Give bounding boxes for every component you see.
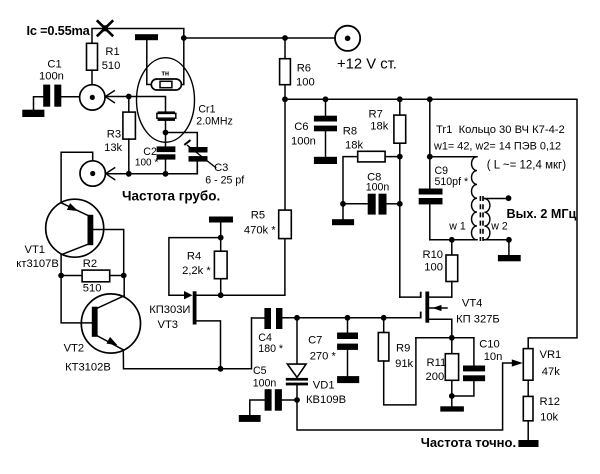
resistor R8 [343,126,400,220]
junction bus R7 [397,96,403,102]
svg-text:C10: C10 [479,339,500,351]
terminal out dot [506,195,512,201]
svg-text:R7: R7 [369,109,383,121]
junction R7 bottom [397,154,403,160]
wire source node [416,337,474,339]
svg-text:2.0MHz: 2.0MHz [196,116,233,128]
svg-text:R3: R3 [107,129,121,141]
svg-text:180 *: 180 * [258,343,283,355]
resistor R4 [182,223,227,296]
svg-text:( L ~= 12,4 мкг): ( L ~= 12,4 мкг) [487,160,567,172]
wire heater left [147,40,152,84]
wire top rail [92,29,336,44]
svg-text:100n: 100n [366,181,390,193]
svg-text:470k *: 470k * [244,225,276,237]
X break symbol [97,20,113,36]
svg-text:C7: C7 [308,335,322,347]
svg-text:КВ109В: КВ109В [306,394,346,406]
svg-text:R6: R6 [297,62,311,74]
ground R12 [518,440,538,447]
svg-text:R4: R4 [187,251,201,263]
wire R4 gate loop [169,238,221,296]
svg-text:18k: 18k [345,140,363,152]
junction VD1 top [294,315,300,321]
svg-text:R8: R8 [343,126,357,138]
thermostat bar [135,34,158,40]
wire coarse node [106,161,198,173]
capacitor C8 [343,172,400,215]
substrate arrow VT4 [429,305,447,311]
wire VT4 drain [429,296,452,298]
arrow VR1 wiper [512,359,523,366]
junction R2 left [58,273,64,279]
junction heater rail [181,35,187,41]
label VT4 [456,298,500,326]
svg-text:Частота грубо.: Частота грубо. [122,189,220,204]
inductor w1 [471,157,477,240]
svg-text:VR1: VR1 [540,349,562,361]
junction bus R6 [282,96,288,102]
svg-text:91k: 91k [395,358,413,370]
junction R9 top [381,315,387,321]
svg-text:VT1: VT1 [25,244,46,256]
svg-text:10k: 10k [540,412,558,424]
ground R8/C8 [332,219,354,225]
svg-text:C3: C3 [214,162,228,174]
junction VT3 source [218,366,224,372]
capacitor C2 [135,133,176,174]
bar above R4 [209,217,233,223]
junction R6 top [282,35,288,41]
svg-text:кт3107В: кт3107В [16,258,59,270]
svg-text:+12 V ст.: +12 V ст. [337,57,397,73]
svg-text:270 *: 270 * [310,351,337,363]
inductor w2 [484,199,490,240]
test point TP2 [80,161,105,186]
svg-text:Частота точно.: Частота точно. [421,435,516,450]
junction R4 bottom [218,292,224,298]
ground R11 [440,406,464,411]
svg-text:C5: C5 [253,365,267,377]
wire w2 top terminal [484,198,507,200]
svg-text:13k: 13k [104,142,122,154]
svg-text:w 1: w 1 [448,221,466,233]
wire node A to crystal [105,97,165,112]
terminal w2 bottom dot [506,237,512,243]
resistor R7 [369,99,406,297]
svg-text:C6: C6 [294,121,308,133]
svg-text:10n: 10n [484,351,503,363]
transistor VT4 channel [425,292,429,323]
svg-text:VT3: VT3 [158,319,179,331]
svg-text:2,2k *: 2,2k * [182,265,211,277]
arrow VT3 gate [184,291,193,299]
resistor R12 [523,396,560,440]
svg-text:КТ3102В: КТ3102В [65,362,111,374]
svg-text:R1: R1 [105,46,119,58]
svg-text:Tr1 Кольцо 30 ВЧ К7-4-2: Tr1 Кольцо 30 ВЧ К7-4-2 [436,124,565,136]
junction R2 right [121,273,127,279]
wire VT3 source [197,321,221,369]
svg-text:R9: R9 [396,343,410,355]
junction R11 bottom [449,393,455,399]
svg-text:510: 510 [102,60,121,72]
svg-text:R11: R11 [427,357,447,369]
ground C6 [314,157,337,164]
junction C8 right [397,201,403,207]
svg-text:510pf *: 510pf * [435,176,469,188]
svg-text:VT4: VT4 [462,298,483,310]
svg-text:510: 510 [83,283,102,295]
capacitor C5 [250,365,297,415]
svg-text:47k: 47k [542,366,560,378]
svg-text:6 - 25 pf: 6 - 25 pf [205,174,244,186]
wire VT2 collector [123,276,125,296]
ground C7 [337,376,359,383]
svg-text:200: 200 [426,371,445,383]
junction R10 top [449,237,455,243]
svg-text:C1: C1 [47,59,61,71]
wire w2 bottom [484,240,509,255]
wire VT1 emitter to TP2 [61,152,93,203]
resistor R2 [61,258,124,295]
resistor R3 [104,97,135,174]
junction C2 bottom [163,171,169,177]
svg-text:18k: 18k [370,121,388,133]
svg-text:100: 100 [296,77,315,89]
wire heater right [181,38,184,85]
svg-text:100n: 100n [291,136,316,148]
svg-text:w1= 42, w2= 14 ПЭВ 0,12: w1= 42, w2= 14 ПЭВ 0,12 [433,141,561,153]
svg-text:Cr1: Cr1 [198,104,215,116]
svg-text:R2: R2 [83,258,97,270]
transistor VT1 [16,199,103,270]
wire w1 bottom [430,239,477,241]
gate1 stub [420,292,422,298]
resistor R6 [280,38,315,99]
connector +12V [335,26,397,73]
trimmer C3 [184,140,244,186]
capacitor C9 [419,157,468,240]
svg-text:VT2: VT2 [64,343,85,355]
svg-text:КП 327Б: КП 327Б [456,314,500,326]
junction C9 top [427,154,433,160]
svg-text:100: 100 [424,262,443,274]
junction crystal bottom [163,130,169,136]
test point TP1 [80,85,105,110]
ground C1 [22,110,44,117]
junction R4 top [218,235,224,241]
wire gate2 varicap line [282,317,420,319]
junction bus Tr rail [427,96,433,102]
svg-text:VD1: VD1 [313,380,335,392]
varicap VD1 [286,318,346,406]
wire VT2 emitter line [123,318,251,369]
svg-text:100n: 100n [253,378,277,390]
wire supply bus [285,99,577,348]
capacitor C7 [308,318,358,376]
capacitor C4 [252,308,284,355]
transistor VT3 channel [193,291,197,324]
core Tr1 [480,196,483,241]
transistor VT2 [64,294,141,374]
svg-text:КП303И: КП303И [149,304,190,316]
wire VT4 source [429,319,452,338]
svg-text:C2: C2 [143,146,157,158]
resistor R5 [244,99,291,238]
svg-text:100 *: 100 * [135,157,158,168]
svg-text:w 2: w 2 [490,221,508,233]
wire w1 top [430,156,477,158]
wire Tr rail [429,99,431,156]
junction R3 top [126,94,132,100]
svg-text:Вых. 2 МГц: Вых. 2 МГц [507,207,577,221]
resistor R1 [87,43,121,84]
svg-text:100n: 100n [39,70,64,82]
label VT3 [149,304,190,331]
wire VT1 collector [60,255,62,276]
svg-text:R5: R5 [251,209,265,221]
svg-text:тн: тн [162,71,170,78]
gate2 stub [420,312,422,319]
capacitor C6 [291,99,337,157]
potentiometer VR1 [523,349,561,397]
wire VT3 drain to R5 [197,239,285,296]
wire VT1 base [93,230,123,276]
junction VD1 bottom [294,397,300,403]
resistor R11 [426,338,459,407]
junction R3 bottom [126,171,132,177]
svg-text:Ic =0.55ma: Ic =0.55ma [27,23,91,38]
junction C8 left [340,201,346,207]
junction bus C6 [323,96,329,102]
resistor R10 [423,240,458,297]
crystal Cr1 [157,104,233,133]
wire fine tune [297,363,512,430]
wire gate1 [400,296,421,298]
arrow TP1 [105,90,115,103]
svg-text:R10: R10 [423,249,444,261]
ground w2 [498,255,521,261]
svg-text:R12: R12 [540,396,561,408]
oven ellipse [137,58,195,143]
ground C5 [239,415,261,422]
resistor R9 [378,318,416,405]
junction source [449,335,455,341]
heater element [151,71,181,91]
arrow TP2 [106,167,116,180]
junction C7 top [345,315,351,321]
wire to C3 [166,133,198,148]
wire to VT2 base [61,276,92,323]
capacitor C1 [34,59,80,111]
capacitor C10 [452,338,503,396]
